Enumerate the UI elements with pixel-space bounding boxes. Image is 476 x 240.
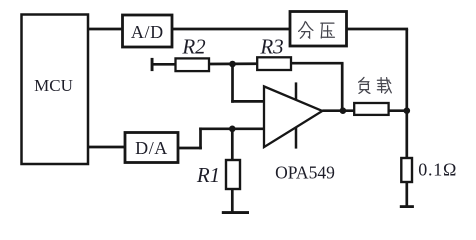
D/A block: [125, 133, 178, 163]
feedback vertical wire: [341, 63, 344, 110]
svg-text:A/D: A/D: [131, 22, 164, 42]
node at R1 top: [229, 126, 236, 133]
svg-text:OPA549: OPA549: [275, 163, 335, 183]
wire R2 to node: [209, 62, 258, 65]
wire R1 top: [231, 129, 234, 161]
divider block 分压: [290, 12, 347, 47]
positive supply pin: [295, 82, 298, 100]
wire inverting drop: [231, 64, 234, 103]
ground right: [400, 205, 414, 208]
resistor R2: [176, 58, 210, 71]
svg-text:MCU: MCU: [34, 76, 73, 95]
分压 label: [299, 22, 335, 39]
wire to noninverting input: [199, 127, 263, 130]
wire MCU to D/A: [88, 146, 126, 149]
svg-text:R3: R3: [259, 34, 283, 58]
wire terminal to R2: [152, 63, 176, 66]
wire divider to right rail: [346, 28, 408, 31]
resistor R3: [257, 57, 291, 70]
resistor R1: [226, 160, 240, 189]
node at rail: [404, 107, 411, 114]
load resistor: [354, 103, 388, 115]
MCU block: [22, 15, 89, 165]
wire MCU to A/D: [88, 28, 124, 31]
A/D block: [123, 15, 173, 47]
wire D/A output: [177, 147, 202, 150]
ground under R1: [222, 211, 249, 214]
wire rail to sense resistor: [405, 111, 408, 159]
wire A/D to divider: [171, 28, 291, 31]
负载 label: [359, 77, 392, 93]
svg-text:Ω: Ω: [443, 159, 456, 179]
op-amp U1: [264, 86, 322, 147]
svg-text:D/A: D/A: [135, 138, 168, 158]
output node: [340, 107, 347, 114]
right rail vertical wire: [405, 29, 408, 111]
negative supply pin: [295, 127, 298, 148]
svg-text:0.1: 0.1: [418, 159, 443, 179]
wire R3 to corner: [291, 62, 344, 65]
wire op-amp output: [322, 109, 354, 112]
wire load to rail: [389, 109, 407, 112]
input terminal: [151, 58, 154, 71]
wire riser: [199, 127, 202, 149]
wire to inverting input: [231, 100, 263, 103]
svg-text:R1: R1: [196, 163, 220, 187]
wire sense resistor bottom: [405, 182, 408, 206]
node summing: [229, 61, 236, 68]
wire R1 bottom: [231, 189, 234, 212]
sense resistor 0.1 ohm: [401, 158, 412, 182]
svg-text:R2: R2: [181, 34, 206, 58]
